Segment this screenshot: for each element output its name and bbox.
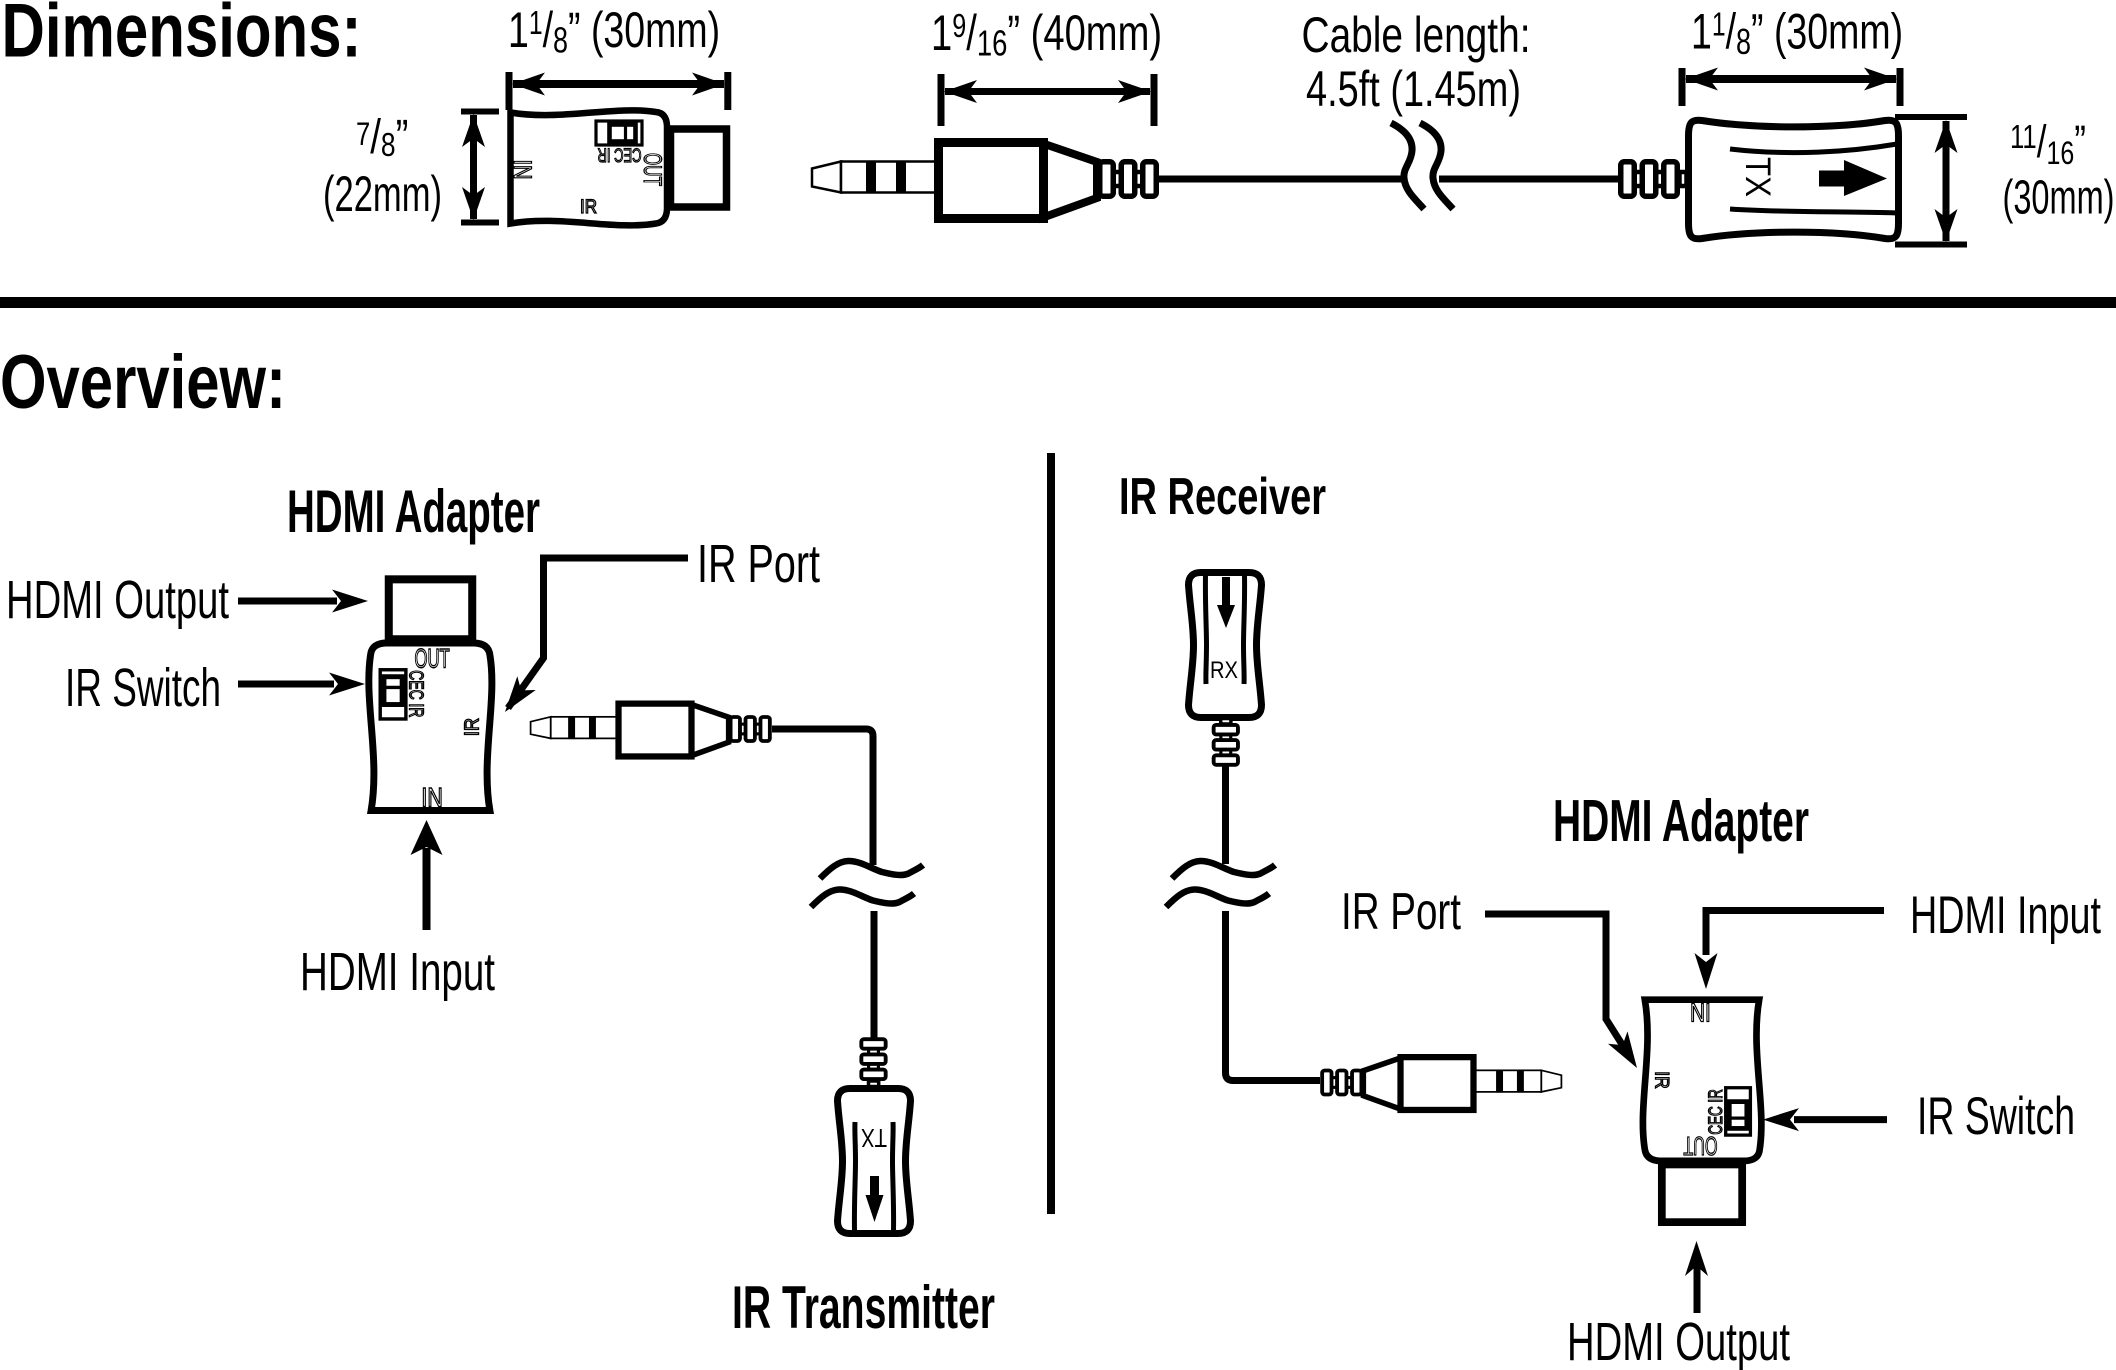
dimension arrow 30mm over adapter bbox=[509, 72, 728, 110]
svg-text:IR Switch: IR Switch bbox=[65, 658, 221, 718]
svg-text:IR Port: IR Port bbox=[697, 534, 820, 594]
svg-text:IR Port: IR Port bbox=[1341, 883, 1461, 941]
svg-text:11/16”: 11/16” bbox=[2010, 116, 2086, 172]
wire from break to corner to plug bbox=[1226, 911, 1321, 1081]
svg-text:4.5ft (1.45m): 4.5ft (1.45m) bbox=[1306, 61, 1521, 117]
svg-text:11/8” (30mm): 11/8” (30mm) bbox=[1691, 4, 1903, 62]
bent arrow IR Port to adapter side (right) bbox=[1485, 914, 1647, 1074]
wire below RX bbox=[1222, 765, 1229, 864]
svg-text:TX: TX bbox=[1738, 157, 1777, 197]
svg-text:Cable length:: Cable length: bbox=[1302, 7, 1531, 63]
dimension arrow 30mm over TX bbox=[1682, 68, 1900, 107]
svg-text:7/8”: 7/8” bbox=[356, 111, 408, 164]
bent arrow IR Port to adapter side bbox=[496, 558, 688, 719]
ribs above TX bbox=[861, 1039, 885, 1086]
arrow HDMI Output to adapter tab bbox=[238, 590, 368, 613]
3.5mm plug (dimensions view) bbox=[812, 143, 1156, 219]
arrow HDMI Output up to adapter tab (right) bbox=[1685, 1241, 1708, 1313]
IR receiver RX (overview) bbox=[1189, 573, 1262, 718]
section divider bar bbox=[0, 297, 2116, 308]
svg-text:IR Receiver: IR Receiver bbox=[1119, 468, 1326, 526]
arrow HDMI Input up to adapter bottom bbox=[411, 820, 443, 930]
wire below break down to TX bbox=[871, 911, 878, 1038]
HDMI adapter (overview right, rotated) bbox=[1643, 997, 1761, 1222]
svg-text:HDMI Adapter: HDMI Adapter bbox=[287, 478, 540, 545]
svg-text:HDMI Adapter: HDMI Adapter bbox=[1553, 788, 1809, 854]
svg-text:TX: TX bbox=[861, 1123, 887, 1153]
svg-text:RX: RX bbox=[1210, 657, 1238, 684]
arrow IR Switch to adapter switch bbox=[238, 673, 365, 696]
cable break curves bbox=[1391, 123, 1424, 209]
3.5mm plug (overview left) bbox=[531, 704, 770, 757]
dimension arrow 22mm vertical bbox=[461, 112, 499, 223]
column separator line bbox=[1047, 453, 1055, 1214]
HDMI adapter (overview left, rotated) bbox=[369, 579, 492, 812]
svg-text:IR Transmitter: IR Transmitter bbox=[732, 1274, 995, 1341]
ribs below RX bbox=[1214, 719, 1238, 765]
dimension arrow 40mm bbox=[941, 74, 1154, 126]
IR transmitter TX (overview) bbox=[838, 1089, 911, 1234]
svg-text:HDMI Output: HDMI Output bbox=[6, 570, 229, 630]
svg-text:11/8” (30mm): 11/8” (30mm) bbox=[508, 3, 720, 61]
svg-text:(30mm): (30mm) bbox=[2003, 172, 2115, 225]
wire cable right segment bbox=[1439, 176, 1622, 183]
cable break waves (left) bbox=[820, 861, 923, 879]
HDMI adapter (dimensions view) bbox=[508, 110, 727, 225]
arrow IR Switch to adapter switch (right) bbox=[1763, 1108, 1887, 1131]
svg-text:(22mm): (22mm) bbox=[323, 166, 442, 222]
wire cable left segment bbox=[1158, 176, 1401, 183]
wire from plug to corner and down bbox=[772, 729, 873, 865]
svg-text:19/16” (40mm): 19/16” (40mm) bbox=[931, 6, 1162, 63]
svg-text:HDMI Input: HDMI Input bbox=[1910, 886, 2101, 945]
IR transmitter TX (dimensions view) bbox=[1621, 120, 1899, 239]
svg-text:Dimensions:: Dimensions: bbox=[2, 0, 362, 74]
3.5mm plug (overview right, mirrored) bbox=[1322, 1057, 1561, 1110]
dimension arrow 30mm vertical right of TX bbox=[1895, 117, 1967, 245]
svg-text:HDMI Input: HDMI Input bbox=[300, 942, 495, 1002]
bent arrow HDMI Input down to adapter top (right) bbox=[1695, 911, 1885, 990]
svg-text:HDMI Output: HDMI Output bbox=[1567, 1312, 1790, 1370]
svg-text:Overview:: Overview: bbox=[0, 340, 286, 425]
svg-text:IR Switch: IR Switch bbox=[1917, 1087, 2075, 1146]
cable break waves (right) bbox=[1172, 861, 1275, 879]
